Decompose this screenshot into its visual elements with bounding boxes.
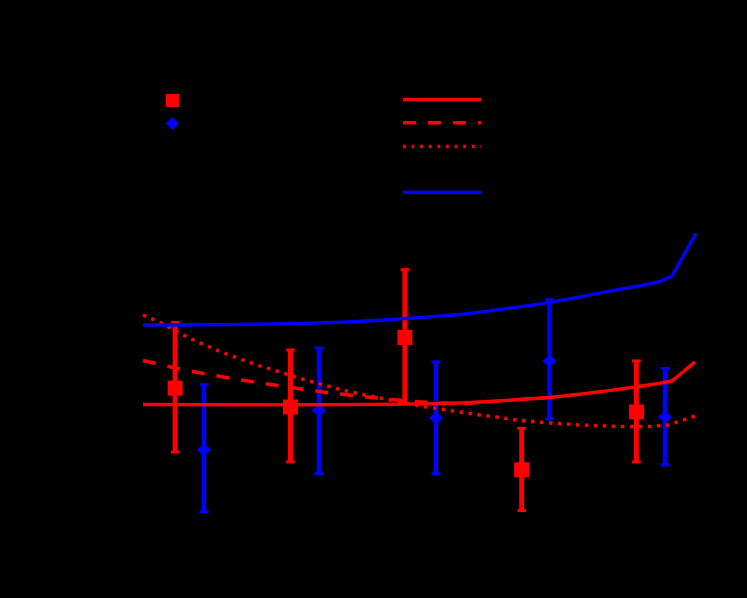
curve: red dotted — [143, 315, 695, 427]
red data point 1 marker — [168, 381, 183, 396]
legend line: blue solid — [403, 191, 481, 195]
red data point 4 marker — [514, 462, 529, 477]
blue data point 3 error bar — [432, 362, 441, 474]
legend line: red dotted — [403, 145, 481, 149]
blue data point 2 error bar — [315, 348, 324, 474]
blue data point 1 error bar — [200, 385, 209, 512]
blue data point 5 marker — [658, 411, 672, 424]
red data point 1 error bar — [171, 323, 180, 453]
red data point 2 error bar — [286, 350, 295, 462]
legend marker: red square — [166, 94, 179, 107]
red data point 4 error bar — [517, 428, 526, 510]
blue data point 3 marker — [429, 412, 443, 425]
legend marker: blue diamond — [166, 117, 179, 130]
red data point 3 marker — [397, 330, 412, 345]
red data point 2 marker — [283, 400, 298, 415]
red data point 3 error bar — [401, 270, 410, 404]
curve: red solid theory — [143, 362, 695, 405]
red data point 5 marker — [629, 404, 644, 419]
curve: red dashed — [143, 361, 695, 404]
legend line: red dashed — [403, 121, 481, 125]
red data point 5 error bar — [632, 361, 641, 462]
blue data point 2 marker — [312, 404, 326, 417]
blue data point 5 error bar — [661, 369, 670, 465]
curve: blue solid theory — [143, 234, 696, 326]
blue data point 1 marker — [197, 443, 211, 456]
blue data point 4 error bar — [545, 300, 554, 419]
blue data point 4 marker — [542, 355, 556, 368]
legend line: red solid — [403, 98, 481, 102]
